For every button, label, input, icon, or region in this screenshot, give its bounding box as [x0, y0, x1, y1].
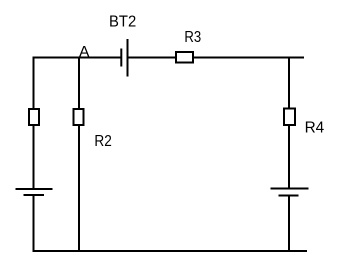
- svg-text:R3: R3: [184, 29, 201, 46]
- resistor R3: [176, 52, 193, 63]
- wire top-right segment (R3 to top-right corner): [194, 57, 305, 59]
- svg-text:R2: R2: [94, 133, 111, 150]
- svg-text:R4: R4: [305, 119, 325, 136]
- resistor (left branch, unlabeled): [29, 109, 39, 125]
- wire right branch upper (top wire to R4): [288, 57, 290, 109]
- battery (left branch, unlabeled): [16, 189, 53, 195]
- wire left branch lower (battery to bottom wire): [33, 195, 35, 252]
- wire right branch middle (R4 to right battery): [288, 125, 290, 189]
- resistor R4: [284, 109, 295, 126]
- svg-text:BT2: BT2: [109, 14, 136, 31]
- battery BT2: [121, 39, 127, 77]
- svg-text:A: A: [79, 44, 90, 61]
- wire middle branch lower (R2 to bottom wire): [78, 125, 80, 252]
- wire between BT2 and R3: [128, 57, 177, 59]
- wire middle branch upper (node A to R2): [78, 57, 80, 110]
- wire right branch lower (battery to bottom wire): [288, 196, 290, 253]
- battery (right branch, unlabeled): [271, 189, 309, 196]
- wire left branch middle (resistor to left battery): [33, 125, 35, 189]
- wire bottom: [33, 250, 308, 252]
- wire left branch upper (top wire to left resistor): [33, 57, 35, 110]
- wire top-left segment (node A to left corner): [33, 57, 121, 59]
- resistor R2: [74, 109, 84, 125]
